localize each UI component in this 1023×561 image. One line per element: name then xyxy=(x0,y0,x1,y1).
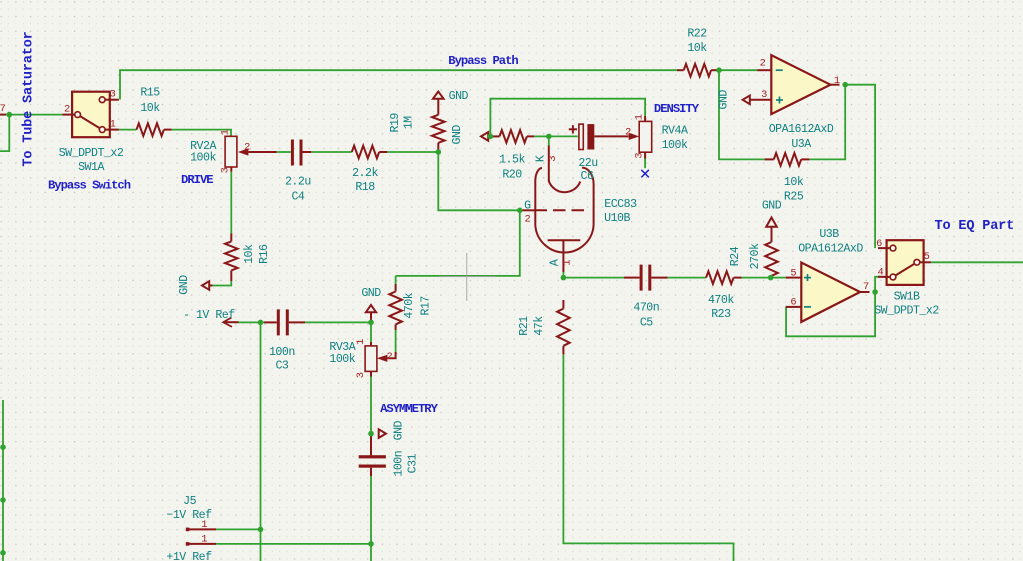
potentiometer RV2A body xyxy=(225,136,276,171)
wire SW1B pin 5 to right edge xyxy=(931,261,1023,263)
potentiometer RV3A body xyxy=(365,342,396,377)
wire R24 node to U3B pin 5 xyxy=(771,277,786,279)
resistor R16 bottom lead xyxy=(230,270,232,281)
resistor R24 xyxy=(765,242,778,276)
node under R19 xyxy=(436,149,442,155)
node at U3B output xyxy=(872,289,878,295)
svg-text:GND: GND xyxy=(361,287,381,300)
svg-text:GND: GND xyxy=(449,90,469,103)
resistor R21 bottom lead xyxy=(562,346,564,355)
resistor R24 bottom lead xyxy=(771,276,773,278)
connector J5 pin 2 xyxy=(186,542,216,546)
resistor R16 xyxy=(225,241,238,270)
svg-text:RV3A: RV3A xyxy=(329,341,355,354)
svg-text:C3: C3 xyxy=(275,360,288,373)
svg-text:GND: GND xyxy=(393,420,406,440)
capacitor C31 xyxy=(359,436,386,476)
triode U10B envelope xyxy=(535,168,593,253)
svg-text:3: 3 xyxy=(220,167,232,173)
svg-text:100k: 100k xyxy=(662,139,688,152)
node U3A output xyxy=(842,82,848,88)
svg-text:R21: R21 xyxy=(518,316,531,336)
node at C31 bottom xyxy=(368,541,374,547)
wire left edge vertical bus xyxy=(2,400,4,561)
svg-text:U3B: U3B xyxy=(819,228,839,241)
resistor R22 xyxy=(684,64,711,77)
node at R20 gnd flag xyxy=(488,134,494,140)
wire RV2A wiper to C4 xyxy=(277,151,291,153)
resistor R19 leads xyxy=(437,99,439,115)
switch SW1B body xyxy=(878,240,931,285)
wire C4 to R18 xyxy=(311,151,352,153)
resistor R23 xyxy=(706,271,733,284)
wire U3B feedback loop pin 6 to output xyxy=(786,292,875,336)
wire node to top loop up and right to RV4A pin 1 xyxy=(490,99,645,137)
op-amp U3A xyxy=(750,55,840,114)
svg-text:10k: 10k xyxy=(687,42,707,55)
node at mid gnd xyxy=(368,320,374,326)
wire tube anode node to C5 xyxy=(563,277,624,279)
svg-text:2: 2 xyxy=(64,104,70,116)
wire R23 to R24 node xyxy=(742,277,771,279)
node at C3 xyxy=(258,320,264,326)
svg-text:R23: R23 xyxy=(711,308,731,321)
svg-text:R20: R20 xyxy=(502,168,522,181)
resistor R25 left lead xyxy=(765,158,774,160)
resistor R15 xyxy=(137,123,164,136)
svg-text:470k: 470k xyxy=(708,294,734,307)
capacitor C5 xyxy=(624,265,668,291)
wire tube anode pin green part xyxy=(562,272,564,278)
svg-text:C31: C31 xyxy=(407,453,420,473)
svg-text:To Tube Saturator: To Tube Saturator xyxy=(22,31,37,166)
svg-text:5: 5 xyxy=(924,251,930,263)
wire RV4A pin 3 stub to no-connect xyxy=(644,159,646,169)
svg-text:R19: R19 xyxy=(389,113,402,133)
resistor R20 xyxy=(500,130,527,143)
svg-text:R17: R17 xyxy=(419,296,432,316)
wire RV3A pin 3 to GND flag node xyxy=(370,377,372,434)
node R22 to U3A pin 2 xyxy=(716,67,722,73)
triode U10B cathode pin xyxy=(548,146,550,182)
svg-text:2.2u: 2.2u xyxy=(285,175,311,188)
svg-text:SW1A: SW1A xyxy=(78,161,104,174)
svg-text:1: 1 xyxy=(201,534,207,546)
svg-text:K: K xyxy=(535,155,548,162)
op-amp U3B xyxy=(786,263,870,322)
svg-text:6: 6 xyxy=(876,238,882,250)
svg-text:3: 3 xyxy=(761,89,767,101)
svg-text:SW1B: SW1B xyxy=(894,291,920,304)
wire cathode node to C6 xyxy=(549,135,578,137)
ground symbol stem mid-left xyxy=(370,312,372,322)
svg-text:470n: 470n xyxy=(633,302,659,315)
svg-text:7: 7 xyxy=(0,103,6,115)
svg-text:R22: R22 xyxy=(687,28,707,41)
svg-text:U10B: U10B xyxy=(604,212,630,225)
svg-text:3: 3 xyxy=(547,156,559,162)
wire R18 to node under R19 xyxy=(387,151,438,153)
wire U3A output to corner and down to SW1B pin 6 xyxy=(845,85,875,248)
svg-text:2: 2 xyxy=(387,351,393,363)
ground flag at R16 xyxy=(202,281,209,290)
node left bus 3 xyxy=(0,550,6,556)
svg-text:SW_DPDT_x2: SW_DPDT_x2 xyxy=(59,147,124,160)
svg-text:ASYMMETRY: ASYMMETRY xyxy=(380,402,439,416)
wire C5 to R23 xyxy=(668,277,707,279)
resistor R17 bottom lead xyxy=(395,324,397,330)
wire bypass path from SW1A pin 3 to R22 xyxy=(120,70,677,99)
switch SW1A body xyxy=(62,92,119,138)
svg-text:2: 2 xyxy=(760,57,766,69)
svg-text:GND: GND xyxy=(762,199,782,212)
svg-text:R25: R25 xyxy=(784,190,804,203)
svg-text:47k: 47k xyxy=(533,316,546,336)
resistor R20 right lead xyxy=(527,135,534,137)
capacitor C3 xyxy=(264,309,305,335)
ground symbol above R24 xyxy=(766,218,777,227)
svg-text:4: 4 xyxy=(878,266,884,278)
wire node under R19 down and right to tube grid node xyxy=(438,152,520,210)
triode U10B grid pin xyxy=(520,209,536,211)
wire R16 bottom to GND flag xyxy=(212,281,232,286)
wire R15 to RV2A pin 1 xyxy=(172,130,232,137)
svg-text:+1V Ref: +1V Ref xyxy=(166,551,212,561)
wire J5 pin 2 row to C31 bottom node xyxy=(216,543,371,545)
wire SW1A pin 1 to R15 xyxy=(119,129,137,131)
resistor R21 xyxy=(557,309,570,346)
wire R21 down and right to bottom edge xyxy=(563,354,733,561)
resistor R17 top lead xyxy=(395,284,397,292)
svg-text:7: 7 xyxy=(863,281,869,293)
wire R22 node down to feedback row R25 xyxy=(719,70,765,159)
wire U3B output up to SW1B pin 4 xyxy=(875,277,880,292)
resistor R22 left lead xyxy=(677,69,684,71)
resistor R17 xyxy=(389,292,402,325)
svg-text:R15: R15 xyxy=(140,87,160,100)
cursor crosshair xyxy=(439,253,496,301)
wire R17 bottom to RV3A wiper xyxy=(395,330,397,352)
svg-text:1: 1 xyxy=(220,129,232,135)
wire minus 1V ref arrow to C3 node xyxy=(238,321,264,323)
svg-text:5: 5 xyxy=(790,267,796,279)
resistor R21 top lead xyxy=(562,300,564,309)
node at RV3A gnd flag xyxy=(368,431,374,437)
svg-text:J5: J5 xyxy=(183,495,196,508)
svg-text:100n: 100n xyxy=(393,451,406,477)
wire cathode node down to tube cathode pin xyxy=(548,136,550,145)
svg-text:GND: GND xyxy=(451,125,464,145)
resistor R25 right lead xyxy=(801,158,809,160)
svg-text:R24: R24 xyxy=(729,246,742,266)
node at input xyxy=(7,112,13,118)
svg-text:2: 2 xyxy=(244,141,250,153)
node at tube anode xyxy=(561,275,567,281)
wire R17 top lead green part xyxy=(395,276,397,284)
svg-text:10k: 10k xyxy=(243,244,256,264)
node at tube grid xyxy=(517,208,523,214)
wire tube grid node down to R17 row xyxy=(396,210,520,276)
resistor R18 xyxy=(352,146,379,159)
svg-text:1: 1 xyxy=(110,119,116,131)
wire GND flag node down to C31 xyxy=(370,434,372,456)
wire C31 to bottom node xyxy=(370,476,372,561)
svg-text:1: 1 xyxy=(634,114,646,120)
svg-text:U3A: U3A xyxy=(791,138,811,151)
wire RV2A pin 3 down to R16 xyxy=(230,172,232,234)
svg-text:3: 3 xyxy=(634,153,646,159)
ground flag right-pointing at RV3A node xyxy=(379,429,386,438)
ground flag at U3A pin 3 xyxy=(743,96,750,105)
node at J5 pin 1 xyxy=(258,527,264,533)
wire minus 1V ref node to GND node mid-left xyxy=(305,321,371,323)
svg-text:100k: 100k xyxy=(329,353,355,366)
svg-text:GND: GND xyxy=(178,275,191,295)
svg-text:OPA1612AxD: OPA1612AxD xyxy=(769,123,834,136)
triode U10B anode plate xyxy=(548,239,581,241)
node left bus 1 xyxy=(0,444,6,450)
wire GND flag R20 to R20 xyxy=(488,135,500,137)
capacitor C6 polarized xyxy=(569,124,629,149)
wire GND node down to RV3A pin 1 xyxy=(370,322,372,342)
svg-text:1: 1 xyxy=(562,260,574,266)
svg-text:R18: R18 xyxy=(355,181,375,194)
node at R24 bottom xyxy=(768,275,774,281)
pin 7 stub of off-sheet part at left edge xyxy=(0,114,6,116)
svg-text:GND: GND xyxy=(717,90,730,110)
svg-text:Bypass Path: Bypass Path xyxy=(448,54,518,68)
svg-text:2.2k: 2.2k xyxy=(352,167,378,180)
resistor R25 xyxy=(774,153,801,166)
svg-text:470k: 470k xyxy=(403,292,416,318)
svg-text:Bypass Switch: Bypass Switch xyxy=(48,179,131,193)
wire C3 node down to J5 pin 1 junction and bottom edge xyxy=(260,322,262,561)
wire R20 to cathode node xyxy=(534,135,549,137)
svg-text:100k: 100k xyxy=(190,152,216,165)
wire R25 to riser under U3A output xyxy=(809,85,845,160)
svg-text:OPA1612AxD: OPA1612AxD xyxy=(798,242,863,255)
capacitor C4 xyxy=(291,140,311,166)
svg-text:C5: C5 xyxy=(640,317,653,330)
svg-text:10k: 10k xyxy=(140,102,160,115)
svg-text:1.5k: 1.5k xyxy=(499,154,525,167)
svg-text:G: G xyxy=(524,199,531,212)
svg-text:DRIVE: DRIVE xyxy=(181,173,213,187)
wire stub branch down-left at input xyxy=(0,115,9,152)
ground flag line R16 xyxy=(209,285,212,287)
resistor R20 left lead xyxy=(490,135,499,137)
connector J5 pin 1 xyxy=(186,528,216,532)
resistor R16 top lead xyxy=(230,233,232,241)
resistor R19 xyxy=(432,115,445,143)
resistor R22 right lead xyxy=(711,69,719,71)
svg-text:270k: 270k xyxy=(749,243,762,269)
resistor R24 top lead xyxy=(771,227,773,242)
svg-text:R16: R16 xyxy=(258,244,271,264)
triode U10B grid dashed line xyxy=(535,209,585,211)
svg-text:6: 6 xyxy=(790,297,796,309)
svg-text:3: 3 xyxy=(110,89,116,101)
wire R22 node to U3A pin 2 xyxy=(719,69,757,71)
ground flag at R20 xyxy=(481,132,488,141)
svg-text:3: 3 xyxy=(355,372,367,378)
svg-text:RV4A: RV4A xyxy=(662,124,688,137)
svg-text:100n: 100n xyxy=(269,346,295,359)
resistor R18 right lead xyxy=(379,151,387,153)
svg-text:C6: C6 xyxy=(581,170,594,183)
svg-text:DENSITY: DENSITY xyxy=(654,102,700,116)
ground symbol above R19 xyxy=(433,92,444,99)
triode U10B anode pin xyxy=(562,240,564,272)
wire J5 pin 1 to vertical xyxy=(216,528,261,530)
triode U10B cathode arc xyxy=(549,181,581,192)
resistor R23 right lead xyxy=(734,277,742,279)
svg-text:2: 2 xyxy=(625,127,631,139)
potentiometer RV4A body xyxy=(629,116,652,159)
svg-text:10k: 10k xyxy=(784,176,804,189)
svg-text:A: A xyxy=(549,259,562,266)
resistor R15 right lead xyxy=(164,129,172,131)
svg-text:ECC83: ECC83 xyxy=(604,198,637,211)
svg-text:To EQ Part: To EQ Part xyxy=(935,219,1015,234)
svg-text:22u: 22u xyxy=(578,157,597,170)
svg-text:- 1V Ref: - 1V Ref xyxy=(183,309,235,322)
svg-text:C4: C4 xyxy=(291,191,304,204)
no-connect X at RV4A pin 3 xyxy=(641,170,649,178)
minus 1V ref arrow xyxy=(223,318,238,327)
wire input from pin 7 to SW1A pin 2 xyxy=(5,114,62,116)
svg-text:SW_DPDT_x2: SW_DPDT_x2 xyxy=(874,305,939,318)
node left bus 2 xyxy=(0,497,6,503)
svg-text:2: 2 xyxy=(525,213,531,225)
svg-text:1: 1 xyxy=(355,339,367,345)
svg-text:1M: 1M xyxy=(403,116,416,129)
node at tube cathode xyxy=(546,134,552,140)
svg-text:1: 1 xyxy=(201,519,207,531)
svg-text:1: 1 xyxy=(834,75,840,87)
ground symbol mid-left above node xyxy=(366,305,376,312)
